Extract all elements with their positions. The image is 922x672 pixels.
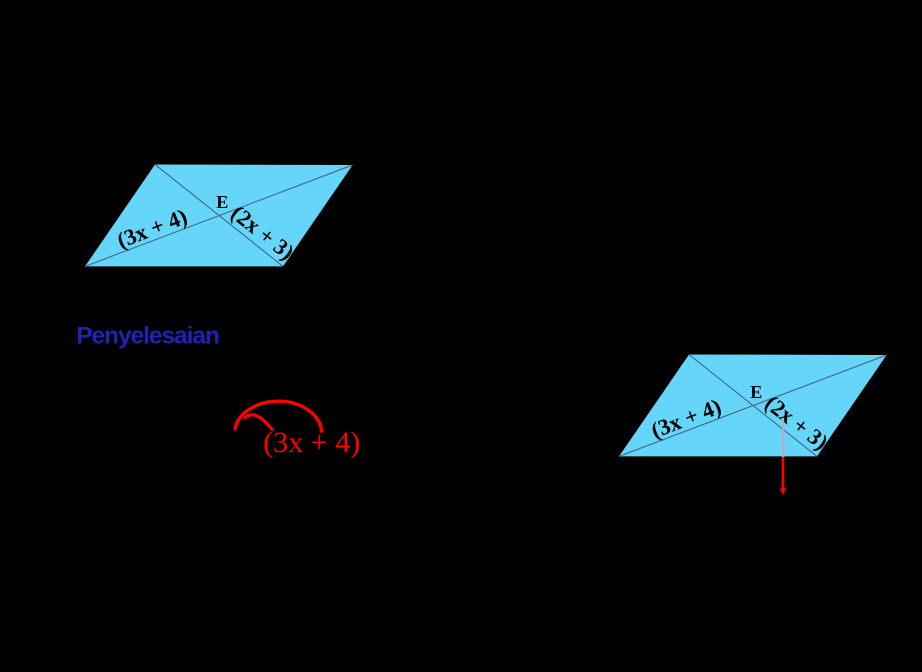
svg-text:(3x + 4): (3x + 4) — [263, 426, 360, 459]
svg-text:Penyelesaian: Penyelesaian — [76, 322, 219, 349]
svg-text:E: E — [216, 192, 228, 212]
svg-text:E: E — [750, 382, 762, 402]
